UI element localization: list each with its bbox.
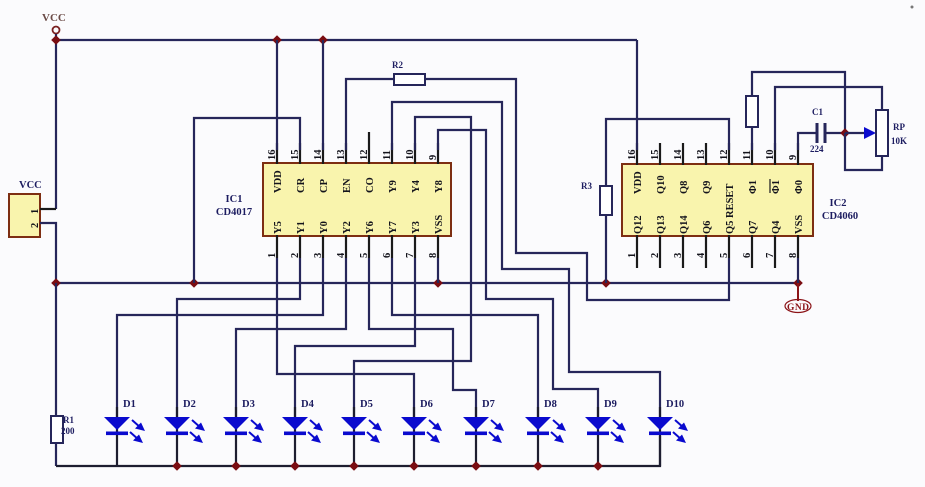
LED D9 [585, 399, 626, 466]
wire IC1 Y7 pin6 to LED D8 [392, 258, 538, 418]
wire IC1 EN pin13 to R2 [346, 79, 394, 150]
svg-text:Y4: Y4 [411, 179, 422, 193]
svg-text:Q6: Q6 [702, 221, 713, 234]
svg-text:15: 15 [650, 150, 661, 161]
LED D5 [341, 399, 382, 466]
svg-text:200: 200 [61, 426, 75, 436]
IC1 pin 13 top stub [345, 143, 347, 164]
wire R3 to ground bus [605, 215, 607, 283]
svg-text:12: 12 [719, 150, 730, 161]
svg-text:CO: CO [365, 177, 376, 193]
wire IC1 CP pin14 to VCC rail [322, 40, 324, 150]
LED D6 [401, 399, 442, 466]
svg-text:CD4060: CD4060 [822, 211, 858, 222]
svg-text:1: 1 [627, 253, 638, 258]
svg-text:12: 12 [359, 150, 370, 161]
wire node A to RP wiper arrow [845, 132, 866, 134]
resistor R3 [581, 181, 612, 215]
svg-text:Q9: Q9 [702, 181, 713, 194]
svg-text:6: 6 [382, 253, 393, 258]
svg-text:16: 16 [267, 150, 278, 161]
svg-text:Q12: Q12 [633, 215, 644, 234]
junction bottom rail / LED D8 [533, 461, 543, 471]
junction ground bus / connector + R1 [51, 278, 61, 288]
junction VCC rail / IC1 pin16 [272, 35, 282, 45]
svg-text:Y2: Y2 [342, 221, 353, 234]
IC2 pin 15 top stub [659, 143, 661, 165]
svg-text:C1: C1 [812, 107, 823, 117]
wire connector pin 2 to ground bus [40, 223, 56, 283]
svg-text:4: 4 [336, 252, 347, 258]
LED D1 [104, 399, 145, 466]
svg-text:Q10: Q10 [656, 175, 667, 194]
svg-text:VSS: VSS [434, 215, 445, 234]
junction bottom rail / LED D6 [409, 461, 419, 471]
svg-text:Q13: Q13 [656, 215, 667, 234]
LED D10 [647, 399, 688, 466]
svg-text:Y0: Y0 [319, 221, 330, 234]
svg-text:5: 5 [719, 253, 730, 258]
svg-text:2: 2 [650, 253, 661, 258]
svg-text:Y3: Y3 [411, 221, 422, 234]
junction ground bus / IC2 VSS [793, 278, 803, 288]
IC2 pin 6 bottom stub [751, 235, 753, 268]
svg-text:Q8: Q8 [679, 181, 690, 194]
svg-text:1: 1 [267, 253, 278, 258]
svg-text:10K: 10K [891, 136, 907, 146]
IC1 pin 8 bottom stub [437, 235, 439, 258]
wire R2 to IC2 Q5 pin5 [425, 79, 729, 300]
svg-text:Y6: Y6 [365, 221, 376, 234]
svg-text:D1: D1 [123, 399, 136, 410]
wire IC1 Y1 pin2 to LED D2 [177, 258, 300, 418]
IC1 pin 11 top stub [391, 143, 393, 164]
node A junction [840, 128, 850, 138]
wire IC1 VSS pin8 to ground bus [437, 258, 439, 283]
wire ground bus to R1 [55, 283, 57, 416]
wire VCC vertical to connector pin 1 [55, 34, 57, 209]
svg-text:2: 2 [290, 253, 301, 258]
svg-text:8: 8 [428, 253, 439, 258]
IC2 pin 3 bottom stub [682, 235, 684, 268]
svg-text:R1: R1 [63, 415, 74, 425]
svg-text:Φ1: Φ1 [748, 180, 759, 194]
wire IC2 phi1bar pin10 to RP top [775, 87, 882, 150]
IC1 pin 15 top stub [299, 143, 301, 164]
svg-text:Q5: Q5 [725, 221, 736, 234]
svg-text:Φ1: Φ1 [771, 180, 782, 194]
svg-text:4: 4 [696, 252, 707, 258]
wire IC2 VSS pin8 to ground bus [797, 258, 799, 283]
svg-text:VCC: VCC [19, 180, 42, 191]
IC U2 IC2 CD4060 body [622, 164, 858, 236]
svg-text:3: 3 [673, 253, 684, 258]
IC2 pin 4 bottom stub [705, 235, 707, 268]
IC2 pin 10 top stub [774, 143, 776, 165]
speck top right [911, 6, 914, 9]
LED D3 [223, 399, 264, 466]
IC2 pin 7 bottom stub [774, 235, 776, 268]
potentiometer RP 10K [876, 110, 907, 156]
svg-text:RP: RP [893, 122, 905, 132]
svg-text:CD4017: CD4017 [216, 207, 252, 218]
resistor R1 [51, 415, 75, 443]
svg-text:D3: D3 [242, 399, 255, 410]
wire IC1 CR pin15 to ground (node at 194) [194, 118, 300, 283]
junction bottom rail / LED D9 [593, 461, 603, 471]
svg-text:15: 15 [290, 150, 301, 161]
wire IC1 Y0 pin3 to LED D1 [117, 258, 323, 418]
svg-text:11: 11 [742, 150, 753, 160]
svg-text:CP: CP [319, 178, 330, 193]
svg-text:14: 14 [313, 149, 324, 160]
wire oscillator resistor to node A [752, 72, 845, 133]
svg-text:D4: D4 [301, 399, 315, 410]
wire ground bus [56, 282, 798, 284]
svg-text:Y1: Y1 [296, 221, 307, 234]
junction bottom rail / LED D2 [172, 461, 182, 471]
junction bottom rail / LED D4 [290, 461, 300, 471]
svg-text:9: 9 [428, 155, 439, 160]
svg-text:7: 7 [405, 253, 416, 258]
svg-text:6: 6 [742, 253, 753, 258]
junction ground bus / R3 [601, 278, 611, 288]
wire IC1 VDD pin16 to VCC rail [276, 40, 278, 150]
svg-text:10: 10 [405, 150, 416, 161]
IC1 pin 2 bottom stub [299, 235, 301, 258]
wire IC1 Y8 pin9 to LED D9 [438, 130, 598, 418]
capacitor C1 224 [810, 107, 825, 154]
junction ground bus / IC1 CR line [189, 278, 199, 288]
IC2 pin 5 bottom stub [728, 235, 730, 258]
svg-text:CR: CR [296, 177, 307, 193]
svg-text:IC2: IC2 [830, 198, 847, 209]
wire IC2 VDD pin16 to VCC rail [636, 40, 638, 150]
IC1 pin 6 bottom stub [391, 235, 393, 258]
IC1 pin 12 top stub [368, 143, 370, 164]
svg-text:2: 2 [30, 223, 41, 228]
junction bottom rail / LED D7 [471, 461, 481, 471]
IC1 pin 5 bottom stub [368, 235, 370, 258]
wire RP bottom to node A [845, 133, 882, 170]
LED D8 [525, 399, 566, 466]
svg-text:R3: R3 [581, 181, 592, 191]
svg-text:IC1: IC1 [226, 194, 243, 205]
connector VCC (2-pin header) [9, 180, 42, 237]
svg-text:3: 3 [313, 253, 324, 258]
IC2 pin 2 bottom stub [659, 235, 661, 268]
IC2 pin 9 top stub [797, 143, 799, 165]
svg-text:Y7: Y7 [388, 221, 399, 234]
wire IC1 Y3 pin7 to LED D4 [295, 258, 415, 418]
svg-text:10: 10 [765, 150, 776, 161]
IC2 pin 8 bottom stub [797, 235, 799, 258]
svg-text:Y9: Y9 [388, 180, 399, 193]
svg-text:16: 16 [627, 150, 638, 161]
wire R1 to bottom rail [55, 443, 57, 466]
svg-text:VSS: VSS [794, 215, 805, 234]
wire IC1 Y6 pin5 to LED D7 [369, 258, 476, 418]
junction ground bus / IC1 VSS [433, 278, 443, 288]
LED D7 [463, 399, 504, 466]
svg-text:Q4: Q4 [771, 220, 782, 234]
svg-text:11: 11 [382, 150, 393, 160]
resistor R4 (oscillator) [746, 96, 758, 127]
wire IC1 Y5 pin1 to LED D6 [277, 258, 414, 418]
IC1 pin 1 bottom stub [276, 235, 278, 258]
IC2 pin10 label overline [769, 179, 771, 193]
svg-text:13: 13 [336, 150, 347, 161]
svg-text:VCC: VCC [42, 12, 66, 24]
svg-text:D6: D6 [420, 399, 433, 410]
IC2 pin 14 top stub [682, 143, 684, 165]
svg-text:VDD: VDD [273, 170, 284, 193]
IC2 pin 1 bottom stub [636, 235, 638, 268]
IC1 pin 16 top stub [276, 143, 278, 164]
svg-text:Y5: Y5 [273, 221, 284, 234]
svg-text:7: 7 [765, 253, 776, 258]
svg-text:9: 9 [788, 155, 799, 160]
IC1 pin 14 top stub [322, 143, 324, 164]
svg-text:224: 224 [810, 144, 824, 154]
IC1 pin 7 bottom stub [414, 235, 416, 258]
junction bottom rail / LED D5 [349, 461, 359, 471]
junction VCC rail / VCC symbol [51, 35, 61, 45]
svg-text:Q14: Q14 [679, 215, 690, 234]
RP wiper arrowhead [864, 127, 876, 139]
wire IC1 Y9 pin11 to LED D10 [392, 102, 660, 418]
LED D4 [282, 399, 323, 466]
svg-text:D8: D8 [544, 399, 557, 410]
IC1 pin 9 top stub [437, 143, 439, 164]
wire IC1 Y2 pin4 to LED D3 [236, 258, 346, 418]
svg-text:D2: D2 [183, 399, 196, 410]
IC2 pin 11 top stub [751, 143, 753, 165]
svg-text:Φ0: Φ0 [794, 180, 805, 194]
svg-text:13: 13 [696, 150, 707, 161]
svg-text:14: 14 [673, 149, 684, 160]
svg-text:D5: D5 [360, 399, 373, 410]
wire IC2 phi1 pin11 to oscillator resistor [751, 127, 753, 150]
ground symbol GND [785, 283, 811, 313]
svg-text:VDD: VDD [633, 171, 644, 194]
wire bottom LED rail [56, 436, 660, 466]
power symbol VCC (top) [42, 12, 66, 34]
svg-text:EN: EN [342, 178, 353, 193]
IC1 CO pin12 open stub [368, 132, 370, 143]
IC U1 IC1 CD4017 body [216, 163, 451, 236]
svg-text:D9: D9 [604, 399, 617, 410]
svg-text:8: 8 [788, 253, 799, 258]
svg-text:R2: R2 [392, 60, 403, 70]
IC2 pin 16 top stub [636, 143, 638, 165]
LED D2 [164, 399, 205, 466]
junction VCC rail / IC1 pin14 [318, 35, 328, 45]
svg-text:Q7: Q7 [748, 221, 759, 234]
svg-text:RESET: RESET [725, 184, 736, 218]
IC2 pin 12 top stub [728, 143, 730, 165]
IC1 pin 10 top stub [414, 143, 416, 164]
wire IC1 Y4 pin10 to LED D5 [354, 117, 471, 418]
wire C1 to node A [826, 132, 845, 134]
svg-text:D10: D10 [666, 399, 684, 410]
svg-text:Y8: Y8 [434, 180, 445, 193]
IC2 pin 13 top stub [705, 143, 707, 165]
svg-text:1: 1 [30, 209, 41, 214]
resistor R2 [392, 60, 425, 85]
wire IC2 phi0 pin9 to C1 [798, 133, 816, 150]
svg-text:D7: D7 [482, 399, 495, 410]
wire top VCC rail [56, 39, 637, 41]
IC1 pin 4 bottom stub [345, 235, 347, 258]
IC1 pin 3 bottom stub [322, 235, 324, 258]
junction bottom rail / LED D3 [231, 461, 241, 471]
wire connector pin 1 stub [40, 208, 56, 210]
svg-text:5: 5 [359, 253, 370, 258]
wire IC2 RESET pin12 to R3 [606, 119, 729, 186]
